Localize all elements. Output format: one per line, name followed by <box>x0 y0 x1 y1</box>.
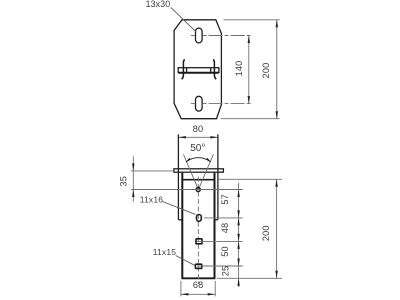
arrow chain 266 down <box>237 259 239 267</box>
svg-text:50: 50 <box>220 246 230 257</box>
step right <box>215 219 218 221</box>
arrow 80 right <box>210 136 218 138</box>
spring clip left <box>182 60 185 80</box>
svg-text:80: 80 <box>193 124 204 134</box>
hole 11x15 upper <box>196 239 202 244</box>
svg-text:57: 57 <box>220 194 230 205</box>
step left <box>178 219 181 221</box>
hole crosshair <box>192 189 205 191</box>
arc arrowhead right <box>206 158 211 162</box>
svg-text:140: 140 <box>234 61 244 77</box>
ext line plate bottom right <box>221 118 280 120</box>
profile bottom edge (thick) <box>182 277 216 279</box>
arrow chain 189.5 up <box>237 190 239 198</box>
dim 200 line view1 <box>276 20 278 119</box>
ext line hole4 center <box>197 265 243 267</box>
profile bar thick bottom <box>178 72 218 74</box>
dim 35 line <box>132 156 134 202</box>
arrow 68 left <box>181 293 189 295</box>
flange plate <box>174 169 224 172</box>
ext line slot2 center left <box>191 103 195 105</box>
arrow chain 241.4 down <box>237 234 239 242</box>
arrow 200 v1 bottom <box>276 111 278 119</box>
arrow 200 v2 bottom <box>275 271 277 279</box>
arrow 200 v1 top <box>276 20 278 28</box>
ext line plate top right <box>224 19 280 21</box>
svg-text:25: 25 <box>220 266 230 277</box>
dim 80 line <box>178 136 218 138</box>
ext line slot1 center right <box>203 35 252 37</box>
arrow 140 bottom <box>248 96 250 104</box>
spring clip right <box>213 60 216 80</box>
ext line hole2 center <box>204 217 243 219</box>
hole 11x16 obround <box>197 215 202 222</box>
leader 11x16 <box>163 202 196 215</box>
ext line 68 right <box>214 281 216 296</box>
ext line body bottom <box>217 277 283 279</box>
arrow chain 278.3 up from below <box>237 278 239 286</box>
ext line slot2 center right <box>203 103 252 105</box>
ext line 68 left <box>180 281 182 296</box>
svg-text:13x30: 13x30 <box>146 0 171 9</box>
profile wall right (thick) <box>214 173 216 278</box>
ext line hole3 center <box>197 240 243 242</box>
plate outline <box>174 20 221 119</box>
chain dim line <box>238 183 240 287</box>
centerline <box>197 177 199 285</box>
arrow 35 bottom <box>132 190 134 198</box>
ext line flange top left <box>131 170 174 172</box>
svg-text:11x15: 11x15 <box>153 247 176 257</box>
arrow chain 217.9 down <box>237 210 239 218</box>
svg-text:48: 48 <box>220 223 230 234</box>
ext line pivot center long <box>131 189 243 191</box>
swivel fan line right <box>198 154 213 189</box>
profile bar divider left <box>186 68 188 73</box>
arrow 140 top <box>248 36 250 44</box>
arrow 68 right <box>208 293 216 295</box>
svg-text:11x16: 11x16 <box>140 195 163 205</box>
profile bar (rail cross member) <box>178 68 219 73</box>
svg-text:35: 35 <box>118 176 128 187</box>
wall-projection / ext line right <box>217 134 219 220</box>
svg-text:200: 200 <box>261 63 271 79</box>
dim 68 line <box>181 293 215 295</box>
svg-text:200: 200 <box>261 225 271 241</box>
swivel arc <box>186 158 211 162</box>
dim 200 line view2 <box>276 179 278 278</box>
arc arrowhead left <box>186 158 191 162</box>
arrow chain 217.9 up <box>237 218 239 226</box>
profile bar divider right <box>210 68 212 73</box>
arrow 80 left <box>178 136 186 138</box>
ext line slot1 center left <box>191 35 195 37</box>
slot hole 13x30 top <box>196 28 203 43</box>
hole 11x15 lower <box>195 264 201 268</box>
ext line body top right <box>219 178 282 180</box>
arrow chain 241.4 up <box>237 241 239 249</box>
leader 11x15 <box>176 256 195 266</box>
leader 13x30 <box>171 8 196 32</box>
arrow 200 v2 top <box>275 179 277 187</box>
slot hole 13x30 bottom <box>196 96 203 111</box>
profile top edge (thick) <box>182 179 214 181</box>
dim 140 line <box>248 36 250 104</box>
profile wall left (thick) <box>181 173 183 278</box>
wall-projection / ext line left <box>177 134 179 220</box>
svg-text:50°: 50° <box>190 143 205 154</box>
arrow 35 top <box>132 163 134 171</box>
pivot hole <box>196 187 200 191</box>
svg-text:68: 68 <box>193 280 204 290</box>
swivel fan line left <box>183 154 198 189</box>
